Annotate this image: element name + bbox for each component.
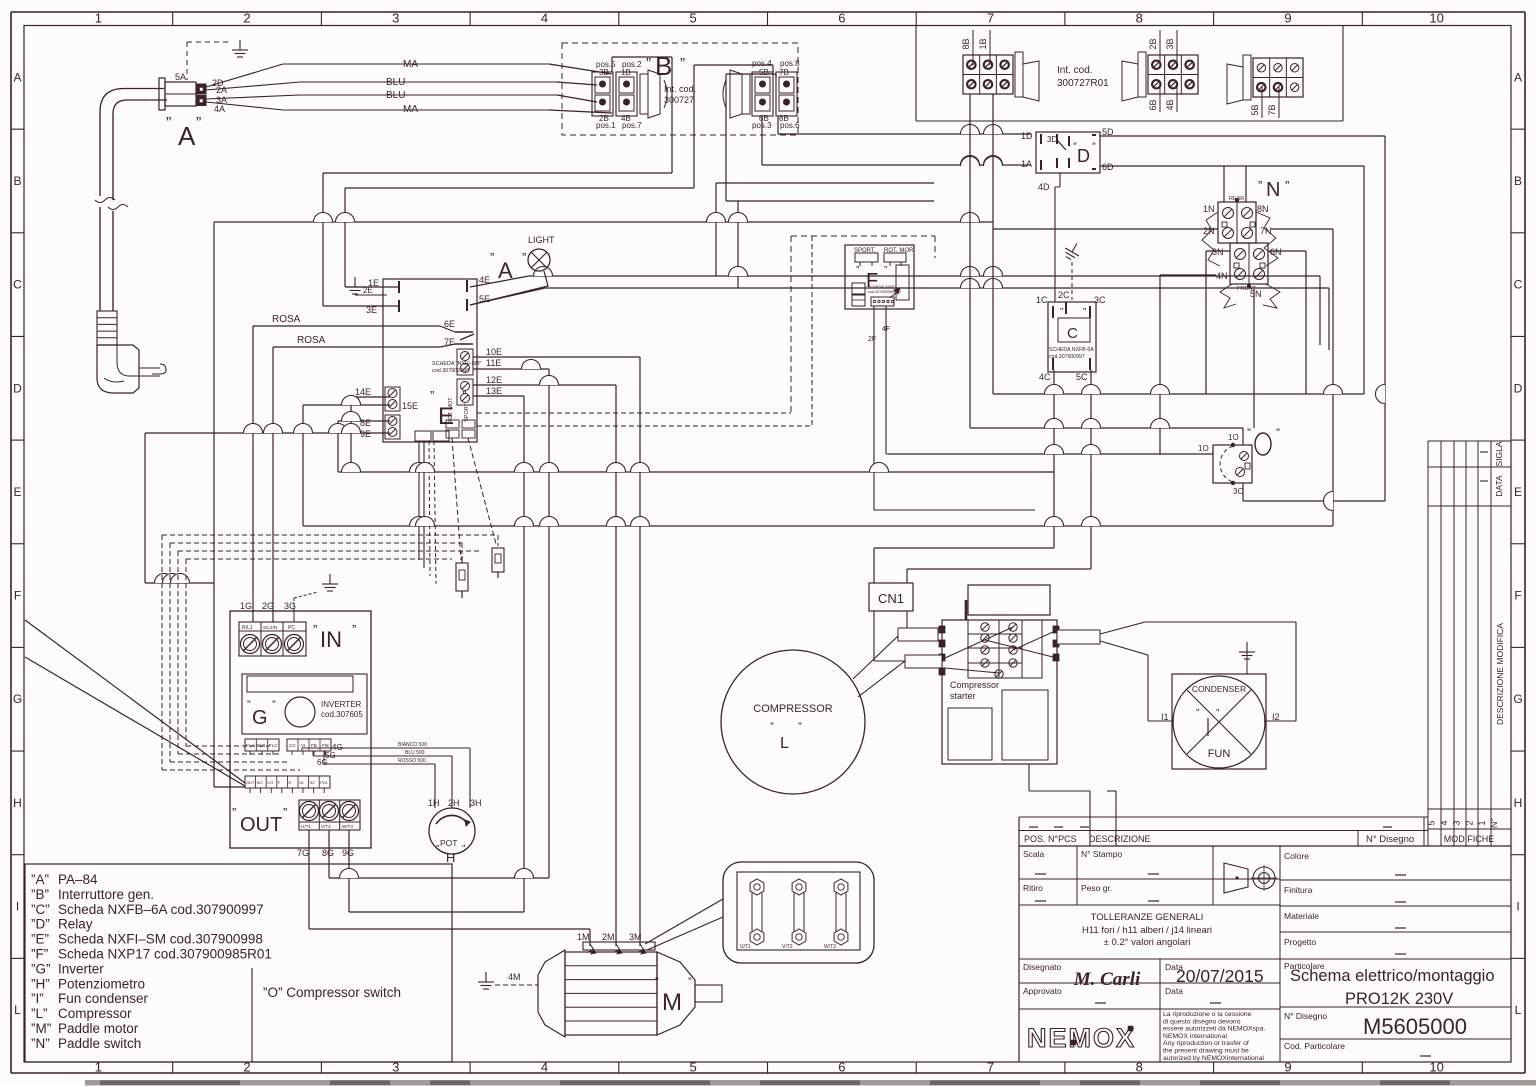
svg-text:A: A bbox=[1514, 70, 1522, 84]
svg-text:”H”: ”H” bbox=[31, 976, 50, 991]
svg-text:TOLLERANZE GENERALI: TOLLERANZE GENERALI bbox=[1091, 912, 1204, 923]
svg-text:BLU: BLU bbox=[386, 90, 405, 101]
svg-text:1C: 1C bbox=[1036, 295, 1048, 305]
svg-text:7B: 7B bbox=[1267, 104, 1277, 115]
svg-text:1B: 1B bbox=[978, 38, 988, 49]
svg-text:Compressor: Compressor bbox=[58, 1006, 132, 1021]
svg-text:4F: 4F bbox=[882, 326, 890, 333]
svg-text:4C: 4C bbox=[1039, 372, 1051, 382]
svg-text:”: ” bbox=[1196, 708, 1199, 719]
svg-text:1O: 1O bbox=[1198, 444, 1209, 453]
svg-text:2H: 2H bbox=[448, 798, 460, 808]
svg-text:6N: 6N bbox=[1270, 247, 1282, 257]
svg-text:2B: 2B bbox=[1148, 38, 1158, 49]
svg-text:”E”: ”E” bbox=[31, 932, 49, 947]
svg-text:A: A bbox=[178, 121, 196, 151]
svg-text:R/L1: R/L1 bbox=[242, 625, 253, 631]
svg-text:15E: 15E bbox=[402, 401, 418, 411]
svg-text:M. Carli: M. Carli bbox=[1073, 969, 1141, 990]
svg-text:”: ” bbox=[1285, 178, 1289, 193]
svg-text:OUT: OUT bbox=[240, 814, 282, 836]
svg-text:N: N bbox=[1266, 179, 1280, 201]
svg-text:A: A bbox=[498, 258, 513, 283]
svg-text:1: 1 bbox=[1477, 820, 1487, 825]
svg-text:”I”: ”I” bbox=[31, 991, 44, 1006]
svg-text:”: ” bbox=[884, 265, 887, 276]
svg-text:L: L bbox=[14, 1003, 21, 1017]
svg-text:7: 7 bbox=[987, 1060, 994, 1075]
svg-text:”: ” bbox=[313, 622, 317, 637]
svg-text:10E: 10E bbox=[486, 347, 502, 357]
svg-text:6E: 6E bbox=[444, 319, 455, 329]
svg-text:”G”: ”G” bbox=[31, 961, 51, 976]
svg-text:”: ” bbox=[680, 55, 685, 72]
svg-text:1M: 1M bbox=[577, 932, 590, 942]
svg-text:IN: IN bbox=[320, 627, 342, 652]
svg-text:starter: starter bbox=[950, 691, 976, 701]
svg-text:5: 5 bbox=[690, 11, 697, 26]
svg-text:SPORT.: SPORT. bbox=[464, 402, 470, 422]
svg-text:E: E bbox=[13, 485, 21, 499]
svg-text:BLU: BLU bbox=[386, 77, 405, 88]
svg-text:”: ” bbox=[1083, 307, 1086, 318]
svg-text:5B: 5B bbox=[1250, 104, 1260, 115]
svg-text:NEMOX: NEMOX bbox=[1027, 1023, 1136, 1053]
svg-text:”: ” bbox=[798, 721, 802, 733]
svg-text:3B: 3B bbox=[599, 68, 609, 77]
svg-text:NEMOX international: NEMOX international bbox=[1163, 1033, 1227, 1040]
svg-text:3E: 3E bbox=[366, 305, 377, 315]
svg-text:4A: 4A bbox=[214, 104, 225, 114]
svg-text:”D”: ”D” bbox=[31, 917, 50, 932]
svg-text:ROSSO 500: ROSSO 500 bbox=[398, 758, 426, 764]
svg-text:G: G bbox=[1513, 692, 1522, 706]
svg-text:CC: CC bbox=[289, 743, 296, 748]
svg-text:H: H bbox=[13, 796, 22, 810]
svg-text:S1: S1 bbox=[299, 780, 305, 785]
svg-text:FUN: FUN bbox=[1208, 748, 1231, 760]
svg-text:14E: 14E bbox=[355, 387, 371, 397]
svg-text:3B: 3B bbox=[1165, 38, 1175, 49]
svg-text:6: 6 bbox=[838, 11, 845, 26]
svg-text:Scheda NXFI–SM cod.307900998: Scheda NXFI–SM cod.307900998 bbox=[58, 932, 263, 947]
svg-text:La riproduzione o la cessione: La riproduzione o la cessione bbox=[1163, 1011, 1252, 1018]
svg-text:MA: MA bbox=[403, 104, 418, 115]
svg-text:Int. cod.: Int. cod. bbox=[664, 84, 696, 94]
svg-text:I: I bbox=[1516, 900, 1519, 914]
svg-text:”: ” bbox=[283, 805, 287, 820]
svg-text:4: 4 bbox=[541, 11, 548, 26]
svg-text:H: H bbox=[446, 850, 455, 865]
svg-text:”: ” bbox=[352, 622, 356, 637]
svg-text:9G: 9G bbox=[342, 848, 354, 858]
svg-text:SIGLA: SIGLA bbox=[1494, 441, 1504, 466]
svg-text:BIANCO 500: BIANCO 500 bbox=[398, 742, 427, 748]
svg-text:LIGHT: LIGHT bbox=[528, 235, 555, 245]
svg-text:DESCRIZIONE: DESCRIZIONE bbox=[1089, 834, 1151, 844]
svg-text:”: ” bbox=[1258, 178, 1262, 193]
svg-text:1H: 1H bbox=[428, 798, 440, 808]
svg-text:pos.4: pos.4 bbox=[752, 59, 772, 68]
svg-text:D: D bbox=[1077, 146, 1090, 166]
svg-text:B: B bbox=[655, 51, 672, 81]
svg-text:Materiale: Materiale bbox=[1284, 911, 1319, 921]
svg-text:F: F bbox=[14, 589, 21, 603]
svg-text:D: D bbox=[13, 381, 22, 395]
svg-text:Paddle switch: Paddle switch bbox=[58, 1036, 141, 1051]
svg-text:FB: FB bbox=[311, 743, 317, 748]
svg-text:”: ” bbox=[430, 388, 434, 403]
svg-text:NO: NO bbox=[257, 780, 263, 785]
svg-text:Peso gr.: Peso gr. bbox=[1081, 883, 1112, 893]
svg-text:”: ” bbox=[272, 699, 276, 711]
svg-text:”: ” bbox=[166, 115, 171, 132]
svg-text:Schema elettrico/montaggio: Schema elettrico/montaggio bbox=[1290, 967, 1495, 985]
svg-text:3C: 3C bbox=[1094, 295, 1106, 305]
svg-text:INVERTER: INVERTER bbox=[321, 700, 362, 709]
svg-text:di questo disegno devono: di questo disegno devono bbox=[1163, 1018, 1241, 1025]
svg-text:13E: 13E bbox=[486, 386, 502, 396]
svg-text:8N: 8N bbox=[1257, 204, 1269, 214]
svg-text:POT: POT bbox=[440, 838, 457, 848]
svg-text:2G: 2G bbox=[262, 601, 274, 611]
svg-text:POS. N°PCS: POS. N°PCS bbox=[1024, 834, 1077, 844]
svg-text:9: 9 bbox=[1284, 1060, 1291, 1075]
svg-text:10: 10 bbox=[1429, 1060, 1443, 1075]
svg-text:7G: 7G bbox=[297, 848, 309, 858]
svg-text:10: 10 bbox=[1429, 11, 1443, 26]
svg-text:I: I bbox=[16, 900, 19, 914]
svg-text:Interruttore gen.: Interruttore gen. bbox=[58, 887, 154, 902]
svg-text:H11 fori / h11 alberi /: H11 fori / h11 alberi / j14 lineari bbox=[1082, 925, 1212, 936]
svg-text:F: F bbox=[278, 780, 281, 785]
svg-text:B: B bbox=[1514, 174, 1522, 188]
svg-text:5A: 5A bbox=[175, 72, 186, 82]
svg-text:PC: PC bbox=[288, 625, 295, 631]
svg-text:C: C bbox=[13, 278, 22, 292]
svg-text:R: R bbox=[288, 780, 291, 785]
svg-text:”: ” bbox=[436, 844, 439, 855]
svg-text:MODIFICHE: MODIFICHE bbox=[1444, 834, 1495, 844]
svg-text:COMPRESSOR: COMPRESSOR bbox=[753, 703, 833, 715]
svg-text:”: ” bbox=[232, 805, 236, 820]
svg-text:Compressor: Compressor bbox=[950, 680, 999, 690]
svg-text:3O: 3O bbox=[1233, 487, 1244, 496]
svg-text:pos.7: pos.7 bbox=[622, 121, 642, 130]
svg-text:2A: 2A bbox=[216, 85, 227, 95]
svg-text:”: ” bbox=[770, 721, 774, 733]
svg-text:the present drawing must be: the present drawing must be bbox=[1163, 1048, 1249, 1055]
svg-text:FLC: FLC bbox=[269, 743, 278, 748]
svg-text:Scala: Scala bbox=[1023, 849, 1045, 859]
svg-text:”F”: ”F” bbox=[31, 947, 48, 962]
svg-text:S/L2/N: S/L2/N bbox=[263, 625, 277, 630]
svg-text:”B”: ”B” bbox=[31, 887, 49, 902]
svg-text:Paddle motor: Paddle motor bbox=[58, 1021, 139, 1036]
svg-text:V/T2: V/T2 bbox=[321, 824, 331, 829]
svg-text:N° Disegno: N° Disegno bbox=[1366, 834, 1414, 845]
svg-text:W/T3: W/T3 bbox=[342, 824, 353, 829]
svg-text:L: L bbox=[1515, 1003, 1522, 1017]
svg-text:1D: 1D bbox=[1021, 131, 1033, 141]
svg-text:G: G bbox=[13, 692, 22, 706]
svg-text:Any riproduction or trasfer of: Any riproduction or trasfer of bbox=[1163, 1040, 1249, 1047]
svg-text:Fun condenser: Fun condenser bbox=[58, 991, 149, 1006]
svg-text:1N: 1N bbox=[1203, 204, 1215, 214]
svg-text:1O: 1O bbox=[1228, 433, 1239, 442]
svg-text:BLU 500: BLU 500 bbox=[405, 750, 425, 756]
svg-text:300727R01: 300727R01 bbox=[1057, 78, 1109, 89]
svg-text:L: L bbox=[780, 735, 789, 752]
svg-text:± 0.2° valori angolari: ± 0.2° valori angolari bbox=[1104, 937, 1191, 948]
svg-text:3H: 3H bbox=[470, 798, 482, 808]
svg-text:SCHEDA “NXP”: SCHEDA “NXP” bbox=[868, 285, 896, 289]
svg-text:3D: 3D bbox=[1047, 135, 1057, 144]
svg-text:”: ” bbox=[1216, 708, 1219, 719]
svg-text:4: 4 bbox=[1439, 820, 1449, 825]
svg-text:CONDENSER: CONDENSER bbox=[1192, 684, 1246, 694]
svg-text:8: 8 bbox=[1136, 1060, 1143, 1075]
svg-text:autorized by NEMOXinternationa: autorized by NEMOXinternational bbox=[1163, 1055, 1264, 1062]
svg-text:G: G bbox=[252, 707, 268, 729]
svg-text:2F: 2F bbox=[868, 336, 876, 343]
svg-text:”: ” bbox=[1060, 307, 1063, 318]
svg-text:CN1: CN1 bbox=[878, 591, 904, 606]
svg-text:3: 3 bbox=[1452, 820, 1462, 825]
svg-text:4E: 4E bbox=[479, 275, 490, 285]
svg-text:pos.6: pos.6 bbox=[780, 121, 800, 130]
svg-text:”: ” bbox=[490, 250, 494, 265]
svg-text:6: 6 bbox=[838, 1060, 845, 1075]
svg-text:Scheda NXFB–6A cod.307900997: Scheda NXFB–6A cod.307900997 bbox=[58, 902, 264, 917]
svg-text:7N: 7N bbox=[1260, 226, 1272, 236]
svg-text:C: C bbox=[1067, 325, 1078, 342]
svg-text:”C”: ”C” bbox=[31, 902, 50, 917]
svg-text:2E: 2E bbox=[363, 286, 373, 295]
svg-text:M: M bbox=[662, 989, 682, 1016]
svg-text:Approvato: Approvato bbox=[1023, 986, 1062, 996]
svg-text:DATA: DATA bbox=[1494, 475, 1504, 497]
svg-text:N°: N° bbox=[1489, 818, 1499, 828]
svg-text:20/07/2015: 20/07/2015 bbox=[1176, 966, 1264, 986]
svg-text:9E: 9E bbox=[360, 429, 371, 439]
svg-text:”A”: ”A” bbox=[31, 872, 49, 887]
svg-text:Ritiro: Ritiro bbox=[1023, 883, 1043, 893]
svg-text:ROSA: ROSA bbox=[272, 314, 301, 325]
svg-text:”: ” bbox=[1276, 426, 1280, 440]
svg-text:V/T2: V/T2 bbox=[782, 944, 793, 950]
svg-text:E: E bbox=[1514, 485, 1522, 499]
svg-text:SCHEDA NXFB-6A: SCHEDA NXFB-6A bbox=[1049, 347, 1094, 353]
svg-text:3M: 3M bbox=[629, 932, 642, 942]
svg-text:U/T1: U/T1 bbox=[740, 944, 751, 950]
svg-text:B: B bbox=[13, 174, 21, 188]
svg-text:5B: 5B bbox=[759, 68, 769, 77]
svg-text:1B: 1B bbox=[621, 68, 631, 77]
svg-text:N° Stampo: N° Stampo bbox=[1081, 849, 1122, 859]
svg-text:cod.307900997: cod.307900997 bbox=[1049, 354, 1085, 360]
svg-text:essere autorizzeti da NEMOXspa: essere autorizzeti da NEMOXspa. bbox=[1163, 1026, 1265, 1033]
svg-text:C: C bbox=[1514, 278, 1523, 292]
svg-text:2N: 2N bbox=[1203, 226, 1215, 236]
svg-text:Scheda NXP17 cod.307900985R0: Scheda NXP17 cod.307900985R01 bbox=[58, 947, 272, 962]
svg-text:2: 2 bbox=[1464, 820, 1474, 825]
svg-text:Progetto: Progetto bbox=[1284, 937, 1316, 947]
svg-text:P24: P24 bbox=[320, 780, 328, 785]
svg-text:3: 3 bbox=[392, 11, 399, 26]
svg-text:DESCRIZIONE MODIFICA: DESCRIZIONE MODIFICA bbox=[1495, 623, 1505, 725]
svg-text:S2: S2 bbox=[310, 780, 316, 785]
svg-text:11E: 11E bbox=[486, 358, 501, 368]
svg-text:2: 2 bbox=[243, 11, 250, 26]
svg-text:H: H bbox=[1514, 796, 1523, 810]
svg-text:Potenziometro: Potenziometro bbox=[58, 976, 145, 991]
svg-text:Disegnato: Disegnato bbox=[1023, 962, 1062, 972]
svg-text:pos.8: pos.8 bbox=[780, 59, 800, 68]
svg-text:ROSA: ROSA bbox=[297, 335, 326, 346]
svg-text:”N”: ”N” bbox=[31, 1036, 50, 1051]
svg-text:1G: 1G bbox=[240, 601, 252, 611]
svg-text:”: ” bbox=[247, 699, 251, 711]
svg-text:”: ” bbox=[856, 265, 859, 276]
svg-text:4D: 4D bbox=[1038, 182, 1050, 192]
svg-text:8E: 8E bbox=[360, 418, 371, 428]
svg-text:”L”: ”L” bbox=[31, 1006, 48, 1021]
svg-text:cod.307605: cod.307605 bbox=[321, 710, 363, 719]
svg-text:Finitura: Finitura bbox=[1284, 885, 1313, 895]
svg-text:5C: 5C bbox=[1076, 372, 1088, 382]
svg-text:”: ” bbox=[522, 250, 526, 265]
svg-text:5N: 5N bbox=[1250, 289, 1262, 299]
svg-text:6D: 6D bbox=[1102, 162, 1114, 172]
svg-text:VI: VI bbox=[301, 743, 305, 748]
svg-text:”: ” bbox=[1247, 426, 1251, 440]
svg-text:U/T1: U/T1 bbox=[301, 824, 311, 829]
svg-text:1A: 1A bbox=[1021, 159, 1032, 169]
svg-text:8: 8 bbox=[1136, 11, 1143, 26]
svg-text:8G: 8G bbox=[322, 848, 334, 858]
svg-text:W/T3: W/T3 bbox=[824, 944, 836, 950]
svg-text:Cod. Particolare: Cod. Particolare bbox=[1284, 1041, 1345, 1051]
svg-text:pos.1: pos.1 bbox=[596, 121, 616, 130]
svg-text:Relay: Relay bbox=[58, 917, 93, 932]
svg-text:4B: 4B bbox=[1165, 99, 1175, 110]
svg-text:7B: 7B bbox=[779, 68, 789, 77]
svg-text:6B: 6B bbox=[1148, 99, 1158, 110]
svg-text:”O” Compressor switch: ”O” Compressor switch bbox=[263, 985, 401, 1000]
svg-text:A: A bbox=[13, 70, 21, 84]
svg-text:FM: FM bbox=[322, 743, 329, 748]
svg-text:5: 5 bbox=[1427, 820, 1437, 825]
svg-text:”: ” bbox=[462, 844, 465, 855]
svg-text:”: ” bbox=[196, 115, 201, 132]
svg-text:”: ” bbox=[688, 976, 692, 988]
svg-text:”: ” bbox=[1092, 141, 1096, 153]
svg-text:M5605000: M5605000 bbox=[1363, 1014, 1467, 1039]
svg-text:OUT: OUT bbox=[246, 780, 255, 785]
svg-text:4: 4 bbox=[541, 1060, 548, 1075]
svg-text:Colore: Colore bbox=[1284, 851, 1309, 861]
svg-text:PRO12K 230V: PRO12K 230V bbox=[1345, 990, 1453, 1008]
svg-text:F: F bbox=[1514, 589, 1521, 603]
svg-text:1: 1 bbox=[95, 11, 102, 26]
svg-text:Inverter: Inverter bbox=[58, 961, 104, 976]
svg-text:CO: CO bbox=[267, 780, 273, 785]
svg-text:MA: MA bbox=[403, 59, 418, 70]
svg-text:7: 7 bbox=[987, 11, 994, 26]
svg-text:”: ” bbox=[655, 976, 659, 988]
svg-text:”M”: ”M” bbox=[31, 1021, 51, 1036]
svg-text:2C: 2C bbox=[1058, 290, 1070, 300]
svg-text:PA–84: PA–84 bbox=[58, 872, 98, 887]
svg-text:Int. cod.: Int. cod. bbox=[1057, 65, 1093, 76]
svg-text:4M: 4M bbox=[508, 972, 521, 982]
svg-text:9: 9 bbox=[1284, 11, 1291, 26]
svg-text:8B: 8B bbox=[961, 38, 971, 49]
svg-text:12E: 12E bbox=[486, 375, 502, 385]
svg-text:5: 5 bbox=[690, 1060, 697, 1075]
svg-text:ROT. MOT.: ROT. MOT. bbox=[448, 396, 454, 424]
svg-text:N° Disegno: N° Disegno bbox=[1284, 1011, 1327, 1021]
svg-text:300727: 300727 bbox=[664, 95, 694, 105]
svg-text:2M: 2M bbox=[602, 932, 615, 942]
svg-text:6G: 6G bbox=[317, 758, 328, 767]
svg-text:7E: 7E bbox=[444, 337, 455, 347]
svg-text:D: D bbox=[1514, 381, 1523, 395]
svg-text:Data: Data bbox=[1165, 986, 1183, 996]
svg-text:3N: 3N bbox=[1212, 247, 1224, 257]
